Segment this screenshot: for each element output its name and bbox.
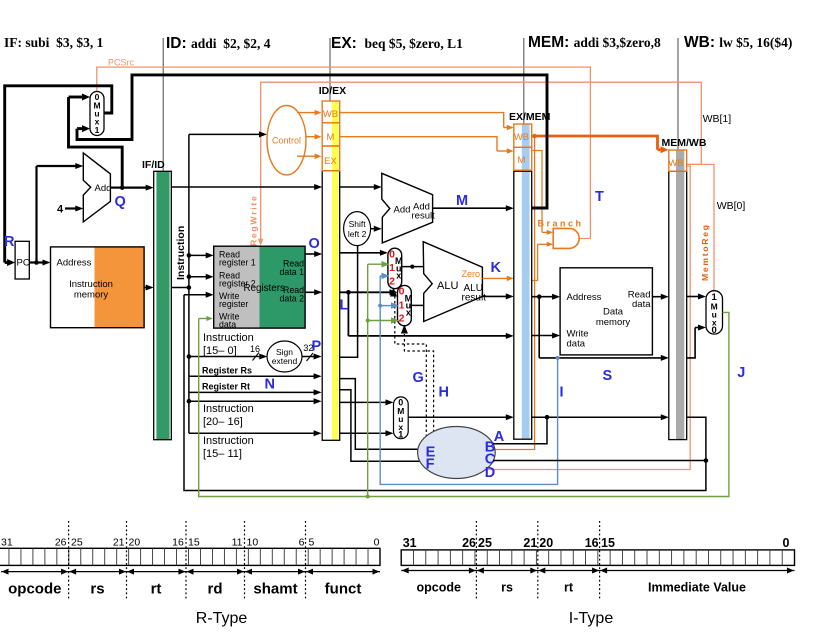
- stage divider line MEM: [523, 38, 525, 124]
- svg-text:16: 16: [585, 536, 599, 550]
- svg-text:data 2: data 2: [280, 294, 305, 304]
- svg-text:Instruction: Instruction: [203, 435, 254, 447]
- svg-text:[15– 0]: [15– 0]: [203, 345, 237, 357]
- svg-text:S: S: [603, 368, 613, 384]
- instruction bus: [188, 134, 190, 431]
- svg-text:K: K: [491, 260, 502, 276]
- svg-text:H: H: [439, 385, 449, 401]
- svg-text:20: 20: [539, 536, 553, 550]
- svg-text:Data: Data: [603, 307, 624, 318]
- wire EX/MEM ALU result forward (blue): [380, 276, 557, 485]
- wire shift left 2 to branch Add: [371, 228, 375, 230]
- svg-text:R e g W r i t e: R e g W r i t e: [249, 196, 259, 246]
- wire Register Rs to ID/EX: [189, 375, 315, 377]
- svg-text:Branch: Branch: [538, 219, 584, 229]
- svg-text:I: I: [560, 385, 564, 401]
- wire writeback data (green) WB mux to Registers write data: [199, 312, 729, 496]
- svg-text:R: R: [4, 234, 15, 250]
- wire ALU result to data memory address: [532, 296, 553, 298]
- svg-text:T: T: [595, 189, 604, 205]
- control box WB (MEM/WB): [669, 150, 687, 171]
- svg-text:EX: beq $5, $zero, L1: EX: beq $5, $zero, L1: [331, 35, 463, 52]
- svg-text:WB: WB: [514, 132, 529, 143]
- svg-text:Instruction: Instruction: [69, 279, 113, 290]
- wire Read data 1 to ID/EX: [305, 253, 315, 255]
- svg-text:G: G: [413, 370, 424, 386]
- svg-text:26: 26: [462, 536, 476, 550]
- svg-text:x: x: [406, 308, 411, 318]
- I-Type field dividers (dashed): [475, 521, 477, 600]
- svg-text:26: 26: [55, 537, 67, 549]
- register PC: [15, 241, 29, 279]
- svg-text:Add: Add: [394, 205, 411, 216]
- wire instr to Read register 1: [187, 253, 192, 258]
- svg-text:Q: Q: [115, 194, 126, 210]
- wire ALU result to EX/MEM: [482, 295, 506, 297]
- svg-text:21: 21: [113, 537, 125, 549]
- svg-text:31: 31: [403, 536, 417, 550]
- wire B forwarding EX/MEM RegWrite to forwarding unit: [495, 136, 535, 450]
- wire Add output to IF/ID: [110, 187, 122, 189]
- svg-text:Address: Address: [567, 292, 602, 303]
- svg-text:0: 0: [783, 536, 790, 550]
- svg-text:2: 2: [389, 276, 395, 288]
- wire store data to EX/MEM: [346, 290, 351, 295]
- wire Rs to forwarding unit input E: [340, 379, 418, 450]
- svg-text:WB: WB: [668, 158, 683, 169]
- svg-text:1: 1: [95, 125, 100, 135]
- svg-text:16: 16: [172, 537, 184, 549]
- wire store data to data memory write data: [532, 335, 553, 337]
- wire Read data 1 to ALU mux A: [340, 252, 381, 254]
- pipeline register EX/MEM: [514, 124, 532, 439]
- wire ALU result bypass to MEM/WB: [538, 297, 540, 358]
- R-Type field dividers (dashed): [68, 521, 70, 600]
- wire read data to MEM/WB: [652, 296, 661, 298]
- svg-text:rs: rs: [90, 581, 104, 598]
- shift left 2 unit: [344, 212, 371, 246]
- R-Type field span arrows: [1, 571, 380, 573]
- wire write register number EX/MEM to MEM/WB: [532, 416, 666, 418]
- svg-text:register: register: [219, 299, 248, 309]
- wire PC to instruction memory: [29, 261, 43, 263]
- svg-text:Immediate Value: Immediate Value: [648, 581, 746, 595]
- wire Read data 2 to ID/EX: [305, 291, 315, 293]
- wire instr[15-11] to ID/EX: [188, 432, 190, 434]
- mux ALU operand A (0/1/2): [388, 248, 402, 288]
- svg-text:MEM/WB: MEM/WB: [662, 137, 707, 149]
- svg-text:11: 11: [232, 537, 243, 549]
- wire immediate to shift left 2: [340, 245, 358, 357]
- wire Control to ID/EX WB: [297, 112, 316, 114]
- svg-text:L: L: [340, 298, 349, 314]
- control box WB (ID/EX): [322, 101, 340, 123]
- svg-text:F: F: [426, 457, 435, 473]
- svg-text:Control: Control: [272, 136, 301, 146]
- forwarding unit: [418, 427, 496, 479]
- svg-text:20: 20: [129, 537, 141, 549]
- svg-text:opcode: opcode: [8, 581, 61, 598]
- svg-text:0: 0: [712, 325, 717, 336]
- wire instr to Read register 2: [187, 274, 192, 279]
- svg-text:IF/ID: IF/ID: [142, 159, 165, 171]
- svg-text:0: 0: [374, 537, 380, 549]
- svg-text:Instruction: Instruction: [203, 332, 254, 344]
- svg-text:register 1: register 1: [219, 257, 256, 267]
- svg-text:rd: rd: [208, 581, 223, 598]
- wire ALU result bypass to WB mux input 0: [687, 328, 695, 358]
- instruction memory: [51, 247, 145, 328]
- wire A forwarding EX/MEM write register to forwarding unit: [493, 417, 547, 444]
- wire PC+4 to PC mux (thick): [69, 97, 123, 188]
- wire PC mux output to PC (thick): [5, 86, 112, 263]
- wire ForwardB control (dashed): [401, 325, 408, 334]
- svg-text:memory: memory: [74, 290, 109, 301]
- adder Add (PC+4): [83, 153, 110, 222]
- wire instr[15-0] to sign extend: [187, 354, 192, 359]
- mux ALU operand B (0/1/2): [398, 285, 412, 325]
- sign extend unit: [267, 341, 302, 372]
- mux write register (0/1): [394, 397, 409, 439]
- svg-text:x: x: [396, 271, 401, 281]
- svg-text:WB[1]: WB[1]: [703, 113, 732, 125]
- svg-text:result: result: [462, 293, 487, 304]
- register file Registers: [214, 246, 260, 328]
- wire WB control ID/EX to EX/MEM: [340, 113, 504, 128]
- wire WB[1] RegWrite from MEM/WB.WB to Registers: [261, 82, 702, 240]
- wire write register number loop to Registers: [184, 295, 706, 491]
- svg-text:25: 25: [478, 536, 492, 550]
- svg-text:15: 15: [601, 536, 615, 550]
- wire C forwarding MEM/WB write register to forwarding unit: [704, 458, 709, 463]
- wire mux A to ALU: [402, 266, 424, 268]
- svg-text:WB[0]: WB[0]: [717, 200, 746, 212]
- svg-text:data 1: data 1: [280, 267, 305, 277]
- svg-text:6: 6: [299, 537, 305, 549]
- svg-text:A: A: [494, 429, 505, 445]
- pipeline register ID/EX: [322, 101, 340, 440]
- svg-text:Register Rs: Register Rs: [202, 366, 252, 376]
- control box M (ID/EX): [322, 123, 340, 146]
- svg-text:PC: PC: [17, 258, 30, 269]
- svg-text:data: data: [567, 339, 586, 350]
- adder Add (branch target): [382, 173, 433, 243]
- svg-text:rt: rt: [564, 581, 574, 595]
- svg-text:31: 31: [1, 537, 13, 549]
- svg-text:2: 2: [399, 313, 405, 325]
- wire writeback forward (green) to ALU muxes: [367, 264, 369, 496]
- svg-text:25: 25: [71, 537, 83, 549]
- wire instruction IF/ID to bus: [171, 287, 189, 289]
- wire Read data 2 to ALU mux B: [340, 291, 391, 293]
- wire instr[15-11] to write-reg mux: [340, 432, 387, 434]
- svg-text:data: data: [219, 320, 236, 330]
- svg-text:left 2: left 2: [348, 229, 367, 239]
- wire PC to Add: [35, 166, 37, 263]
- svg-text:M: M: [456, 193, 468, 209]
- I-Type field span arrows: [401, 570, 794, 572]
- R-Type bit ruler: [0, 548, 380, 565]
- control box EX (ID/EX): [322, 146, 340, 171]
- control unit U-Control (oval): [267, 106, 306, 175]
- svg-text:shamt: shamt: [253, 581, 297, 598]
- wire instr[20-16] to ID/EX: [187, 399, 192, 404]
- svg-text:10: 10: [247, 537, 259, 549]
- stage divider line ID: [162, 38, 164, 171]
- wire WB[0] MemtoReg from MEM/WB.WB to WB mux select: [687, 164, 714, 290]
- wire mux B to ALU: [411, 304, 423, 306]
- svg-text:Address: Address: [57, 258, 92, 269]
- wire WB control EX/MEM to MEM/WB (thick orange): [532, 136, 658, 150]
- svg-text:data: data: [632, 299, 651, 310]
- ALU: [423, 242, 482, 322]
- svg-text:O: O: [309, 236, 320, 252]
- control box WB (EX/MEM): [514, 124, 532, 147]
- svg-text:IF: subi $3, $3, 1: IF: subi $3, $3, 1: [4, 35, 104, 50]
- svg-text:4: 4: [57, 204, 64, 216]
- wire D forwarding RegWrite from MEM/WB.WB to forwarding unit: [486, 166, 690, 470]
- svg-text:ALU: ALU: [437, 280, 458, 292]
- svg-text:rs: rs: [501, 581, 513, 595]
- wire PC+4 IF/ID to ID/EX: [171, 186, 315, 188]
- svg-text:N: N: [265, 377, 275, 393]
- mux MemtoReg (1/0): [706, 291, 723, 334]
- svg-text:EX/MEM: EX/MEM: [509, 111, 551, 123]
- svg-text:memory: memory: [596, 317, 631, 328]
- wire read data to WB mux input 1: [687, 296, 699, 298]
- svg-text:21: 21: [523, 536, 537, 550]
- svg-text:result: result: [412, 211, 436, 222]
- svg-text:Register Rt: Register Rt: [202, 382, 250, 392]
- svg-text:Zero: Zero: [462, 269, 481, 279]
- svg-text:J: J: [737, 365, 745, 381]
- wire Zero from EX/MEM to AND gate: [532, 244, 538, 280]
- svg-text:R-Type: R-Type: [196, 610, 248, 627]
- pipeline register IF/ID: [154, 171, 172, 439]
- stage divider line EX: [329, 38, 331, 101]
- wire sign extend to ID/EX: [302, 356, 315, 358]
- wire Branch from EX/MEM.M to AND gate: [532, 151, 542, 233]
- wire PCSrc from branch AND gate to PC mux: [97, 67, 591, 238]
- stage divider line WB: [677, 38, 679, 150]
- svg-text:Registers: Registers: [244, 283, 285, 294]
- wire Control to ID/EX M: [306, 136, 316, 138]
- svg-text:1: 1: [398, 430, 403, 440]
- svg-text:WB: lw $5, 16($4): WB: lw $5, 16($4): [684, 34, 792, 51]
- svg-text:[15– 11]: [15– 11]: [203, 448, 242, 460]
- svg-text:PCSrc: PCSrc: [108, 58, 135, 68]
- wire instr[20-16] to write-reg mux: [340, 401, 387, 403]
- wire Rt to forwarding unit input F: [340, 390, 420, 461]
- data memory: [560, 268, 652, 355]
- svg-text:Shift: Shift: [349, 219, 367, 229]
- svg-text:funct: funct: [325, 581, 362, 598]
- svg-text:15: 15: [188, 537, 200, 549]
- AND gate (branch): [553, 228, 579, 248]
- wire ForwardA control (dashed): [390, 288, 397, 297]
- wire write register number to EX/MEM: [408, 416, 507, 418]
- svg-text:EX: EX: [324, 156, 337, 167]
- wire Zero to EX/MEM: [482, 277, 507, 279]
- svg-text:[20– 16]: [20– 16]: [203, 416, 243, 428]
- svg-text:Add: Add: [95, 183, 112, 194]
- wire Register Rt to ID/EX: [189, 391, 315, 393]
- mux PCSrc (0/1) at PC: [90, 92, 104, 136]
- svg-text:rt: rt: [151, 581, 162, 598]
- svg-text:Instruction: Instruction: [175, 226, 187, 280]
- wire M control ID/EX to EX/MEM: [340, 137, 497, 151]
- svg-text:M: M: [327, 132, 335, 143]
- svg-text:M: M: [518, 155, 526, 166]
- svg-text:MEM: addi $3,$zero,8: MEM: addi $3,$zero,8: [528, 34, 661, 51]
- wire instruction to Control: [189, 133, 260, 135]
- svg-text:extend: extend: [272, 356, 298, 366]
- wire PC+4 ID/EX to branch Add: [340, 186, 375, 188]
- wire branch target feedback EX/MEM to PC mux (thick): [77, 75, 547, 208]
- svg-text:I-Type: I-Type: [569, 610, 614, 627]
- svg-text:M e m t o R e g: M e m t o R e g: [700, 225, 710, 281]
- svg-text:5: 5: [309, 537, 315, 549]
- wire instruction memory to IF/ID: [144, 287, 147, 289]
- svg-text:P: P: [312, 339, 322, 355]
- I-Type bit ruler: [401, 550, 794, 566]
- svg-text:D: D: [485, 465, 495, 481]
- pipeline register MEM/WB: [669, 150, 687, 440]
- svg-text:ID/EX: ID/EX: [319, 85, 346, 97]
- svg-text:opcode: opcode: [416, 581, 460, 595]
- control box M (EX/MEM): [514, 147, 532, 170]
- svg-text:ID: addi $2, $2, 4: ID: addi $2, $2, 4: [166, 35, 271, 52]
- svg-text:Instruction: Instruction: [203, 403, 254, 415]
- wire Control to ID/EX EX: [297, 155, 316, 157]
- wire branch target Add to EX/MEM: [433, 207, 507, 209]
- svg-text:WB: WB: [323, 109, 338, 120]
